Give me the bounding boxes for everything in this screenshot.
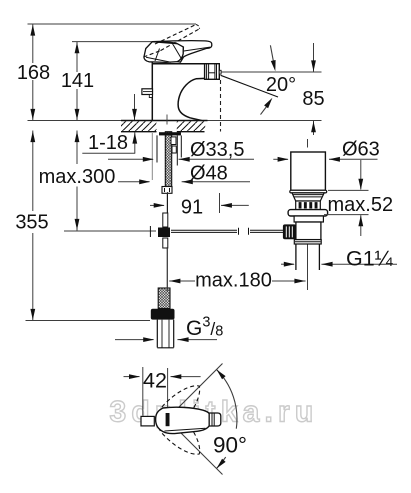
svg-text:G1¼: G1¼ [346,247,394,271]
svg-text:Ø33,5: Ø33,5 [190,139,244,161]
svg-text:Ø63: Ø63 [342,139,380,161]
svg-text:1-18: 1-18 [88,132,128,154]
svg-text:max.52: max.52 [328,194,394,216]
svg-text:141: 141 [61,70,94,92]
svg-text:Ø48: Ø48 [190,163,228,185]
svg-text:90°: 90° [213,433,247,458]
svg-text:85: 85 [302,88,324,110]
svg-text:355: 355 [15,212,48,234]
svg-text:42: 42 [143,369,167,393]
svg-text:max.300: max.300 [39,166,116,188]
svg-text:20°: 20° [266,74,296,96]
svg-text:168: 168 [17,62,50,84]
svg-text:91: 91 [181,197,203,219]
svg-text:max.180: max.180 [195,270,272,292]
